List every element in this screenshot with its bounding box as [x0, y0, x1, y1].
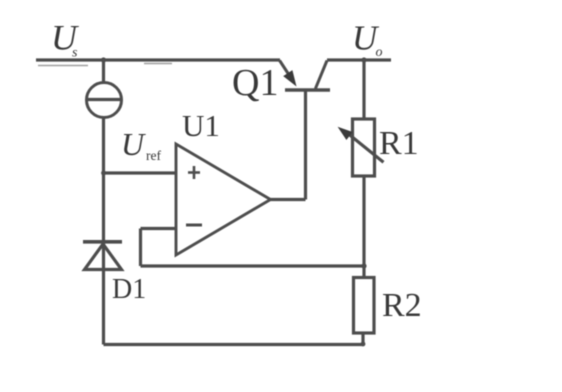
svg-text:U: U	[121, 126, 146, 162]
svg-text:U1: U1	[182, 108, 220, 143]
svg-text:ref: ref	[146, 148, 161, 163]
svg-text:R1: R1	[379, 125, 419, 162]
svg-text:D1: D1	[112, 274, 146, 305]
svg-text:Q1: Q1	[232, 62, 278, 104]
svg-text:o: o	[376, 45, 383, 60]
svg-text:R2: R2	[382, 287, 422, 324]
svg-text:s: s	[72, 46, 78, 61]
